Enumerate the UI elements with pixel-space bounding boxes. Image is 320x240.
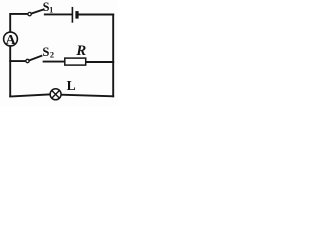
wire (battery to top-right corner) xyxy=(79,14,113,16)
switch S2 contact xyxy=(26,59,29,62)
resistor R xyxy=(65,58,86,65)
wire (S1 to battery) xyxy=(45,13,72,15)
wire (resistor to right side) xyxy=(87,61,114,63)
switch S1 arm xyxy=(31,9,43,13)
switch S2 arm xyxy=(29,56,41,61)
wire bottom-right (corner to lamp) xyxy=(62,95,114,97)
wire bottom-left (lamp to corner) xyxy=(10,94,50,96)
svg-text:L: L xyxy=(67,78,76,93)
battery short plate xyxy=(75,11,78,19)
svg-text:A: A xyxy=(6,33,17,48)
battery long plate xyxy=(71,8,73,22)
svg-text:1: 1 xyxy=(49,5,53,14)
switch S1 contact xyxy=(28,12,31,15)
wire top-left (corner to switch S1) xyxy=(10,14,27,96)
wire (S2 to resistor R) xyxy=(44,61,64,63)
svg-text:R: R xyxy=(75,43,86,59)
ammeter U1 xyxy=(4,32,18,46)
svg-text:2: 2 xyxy=(50,50,54,59)
lamp L xyxy=(50,89,61,100)
wire right side xyxy=(112,15,114,97)
svg-text:S: S xyxy=(42,45,49,59)
wire middle branch left xyxy=(10,60,25,62)
